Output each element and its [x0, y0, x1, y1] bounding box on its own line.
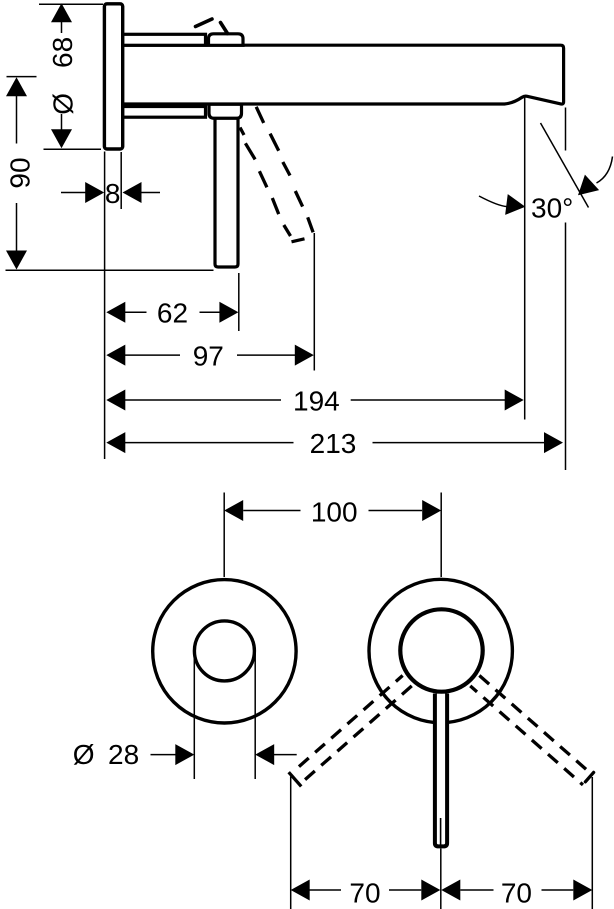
arrow 194 left [106, 390, 125, 411]
dashed lever lowered position [240, 107, 313, 242]
svg-text:Ø: Ø [47, 93, 78, 115]
svg-text:68: 68 [47, 37, 78, 68]
arrow 68 top [51, 3, 72, 22]
lower arm [123, 107, 206, 118]
ext line 100 left [223, 493, 225, 578]
arrow 90 top [6, 77, 27, 96]
dashed lever upper position dash 2 [221, 23, 228, 34]
dashed lever front view left position [289, 674, 414, 787]
right handle inner circle [400, 609, 482, 691]
30 deg right leader curve [597, 157, 613, 184]
dim line 194 [124, 399, 281, 401]
ext line d28 right [254, 651, 256, 779]
dim line 100 [243, 510, 300, 512]
arrow 62 right [219, 302, 238, 323]
svg-text:90: 90 [4, 157, 35, 188]
center line rod [440, 849, 442, 909]
svg-text:Ø: Ø [73, 739, 95, 770]
svg-text:30°: 30° [531, 192, 573, 223]
ext line 90 top tick [7, 76, 37, 78]
arrow 70 far-left [291, 880, 310, 901]
arrow 194 right [505, 390, 524, 411]
svg-text:8: 8 [105, 178, 121, 209]
dim line 90 vertical [16, 95, 18, 144]
left spout stub inner circle [194, 621, 254, 681]
dim line 70 left [309, 889, 341, 891]
ext line 100 right [440, 493, 442, 578]
arrow 100 left [224, 500, 243, 521]
arrow 213 right [544, 432, 563, 453]
arrow 100 right [422, 500, 441, 521]
arrowheads top figure [6, 3, 599, 453]
svg-text:100: 100 [311, 497, 358, 528]
ext line 90 bottom long [6, 269, 214, 271]
svg-text:213: 213 [310, 428, 357, 459]
dim line d28 [151, 754, 177, 756]
right escutcheon outer circle [369, 579, 512, 722]
arrow 68 bottom [51, 129, 72, 148]
arrow 30deg right leader [571, 175, 599, 203]
dim line 62 [124, 311, 146, 313]
svg-text:97: 97 [193, 341, 224, 372]
arrow 8 left [85, 182, 104, 203]
arrow 90 bottom [6, 251, 27, 270]
handle rod front view [435, 694, 447, 847]
arrow 70 far-right [573, 880, 592, 901]
dim line 213 [124, 442, 293, 444]
ext line d28 left [193, 651, 195, 779]
svg-text:194: 194 [293, 385, 340, 416]
svg-text:70: 70 [501, 878, 532, 909]
handle rod inner line [440, 818, 442, 845]
arrowheads bottom figure [175, 500, 592, 901]
upper arm [123, 34, 206, 45]
ext line 213 right (spout tip), broken by 30 deg text [565, 108, 567, 151]
dim line 8 [61, 192, 86, 194]
svg-text:28: 28 [108, 739, 139, 770]
ext line 70 right [591, 777, 593, 909]
thin dimension and extension lines [6, 4, 613, 470]
ext line 194 right (spout outlet) [524, 98, 526, 420]
dimension texts bottom figure [73, 497, 532, 909]
ext line 70 left [290, 777, 292, 909]
svg-text:70: 70 [349, 878, 380, 909]
arrow 62 left [106, 302, 125, 323]
dashed lever upper position dash 1 [196, 19, 213, 27]
arrow d28 left [175, 744, 194, 765]
ext line plate right vertical [120, 152, 122, 209]
30 deg angle leg line [541, 123, 589, 208]
arrow 97 left [106, 345, 125, 366]
dim line 68 vertical [61, 21, 63, 34]
svg-text:62: 62 [157, 298, 188, 329]
wall plate [104, 4, 122, 149]
bottom figure thin lines [151, 493, 593, 909]
arrow 70 center-left [421, 880, 440, 901]
arrow 70 center-right [441, 880, 460, 901]
30 deg left leader curve [479, 196, 507, 207]
ext line 97 right [313, 233, 315, 371]
arrow 97 right [295, 345, 314, 366]
dim line 70 right [460, 889, 493, 891]
arrow 8 right [123, 182, 142, 203]
left escutcheon outer circle [153, 580, 296, 723]
lower box [209, 104, 242, 118]
spout [123, 45, 564, 104]
arrow d28 right [255, 744, 274, 765]
dimension texts top figure [4, 37, 573, 459]
ext line wall face vertical [104, 152, 106, 460]
ext line 62 right [238, 273, 240, 331]
handle rod (side view, vertical position) [215, 118, 238, 267]
arrow 213 left [106, 432, 125, 453]
dashed lever front view right position [470, 674, 594, 785]
ext line top of plate horizontal [39, 3, 103, 5]
ext line bottom of plate horizontal [44, 148, 102, 150]
arrow 30deg left leader [505, 194, 526, 217]
upper box [209, 34, 244, 46]
dim line 97 [124, 354, 180, 356]
